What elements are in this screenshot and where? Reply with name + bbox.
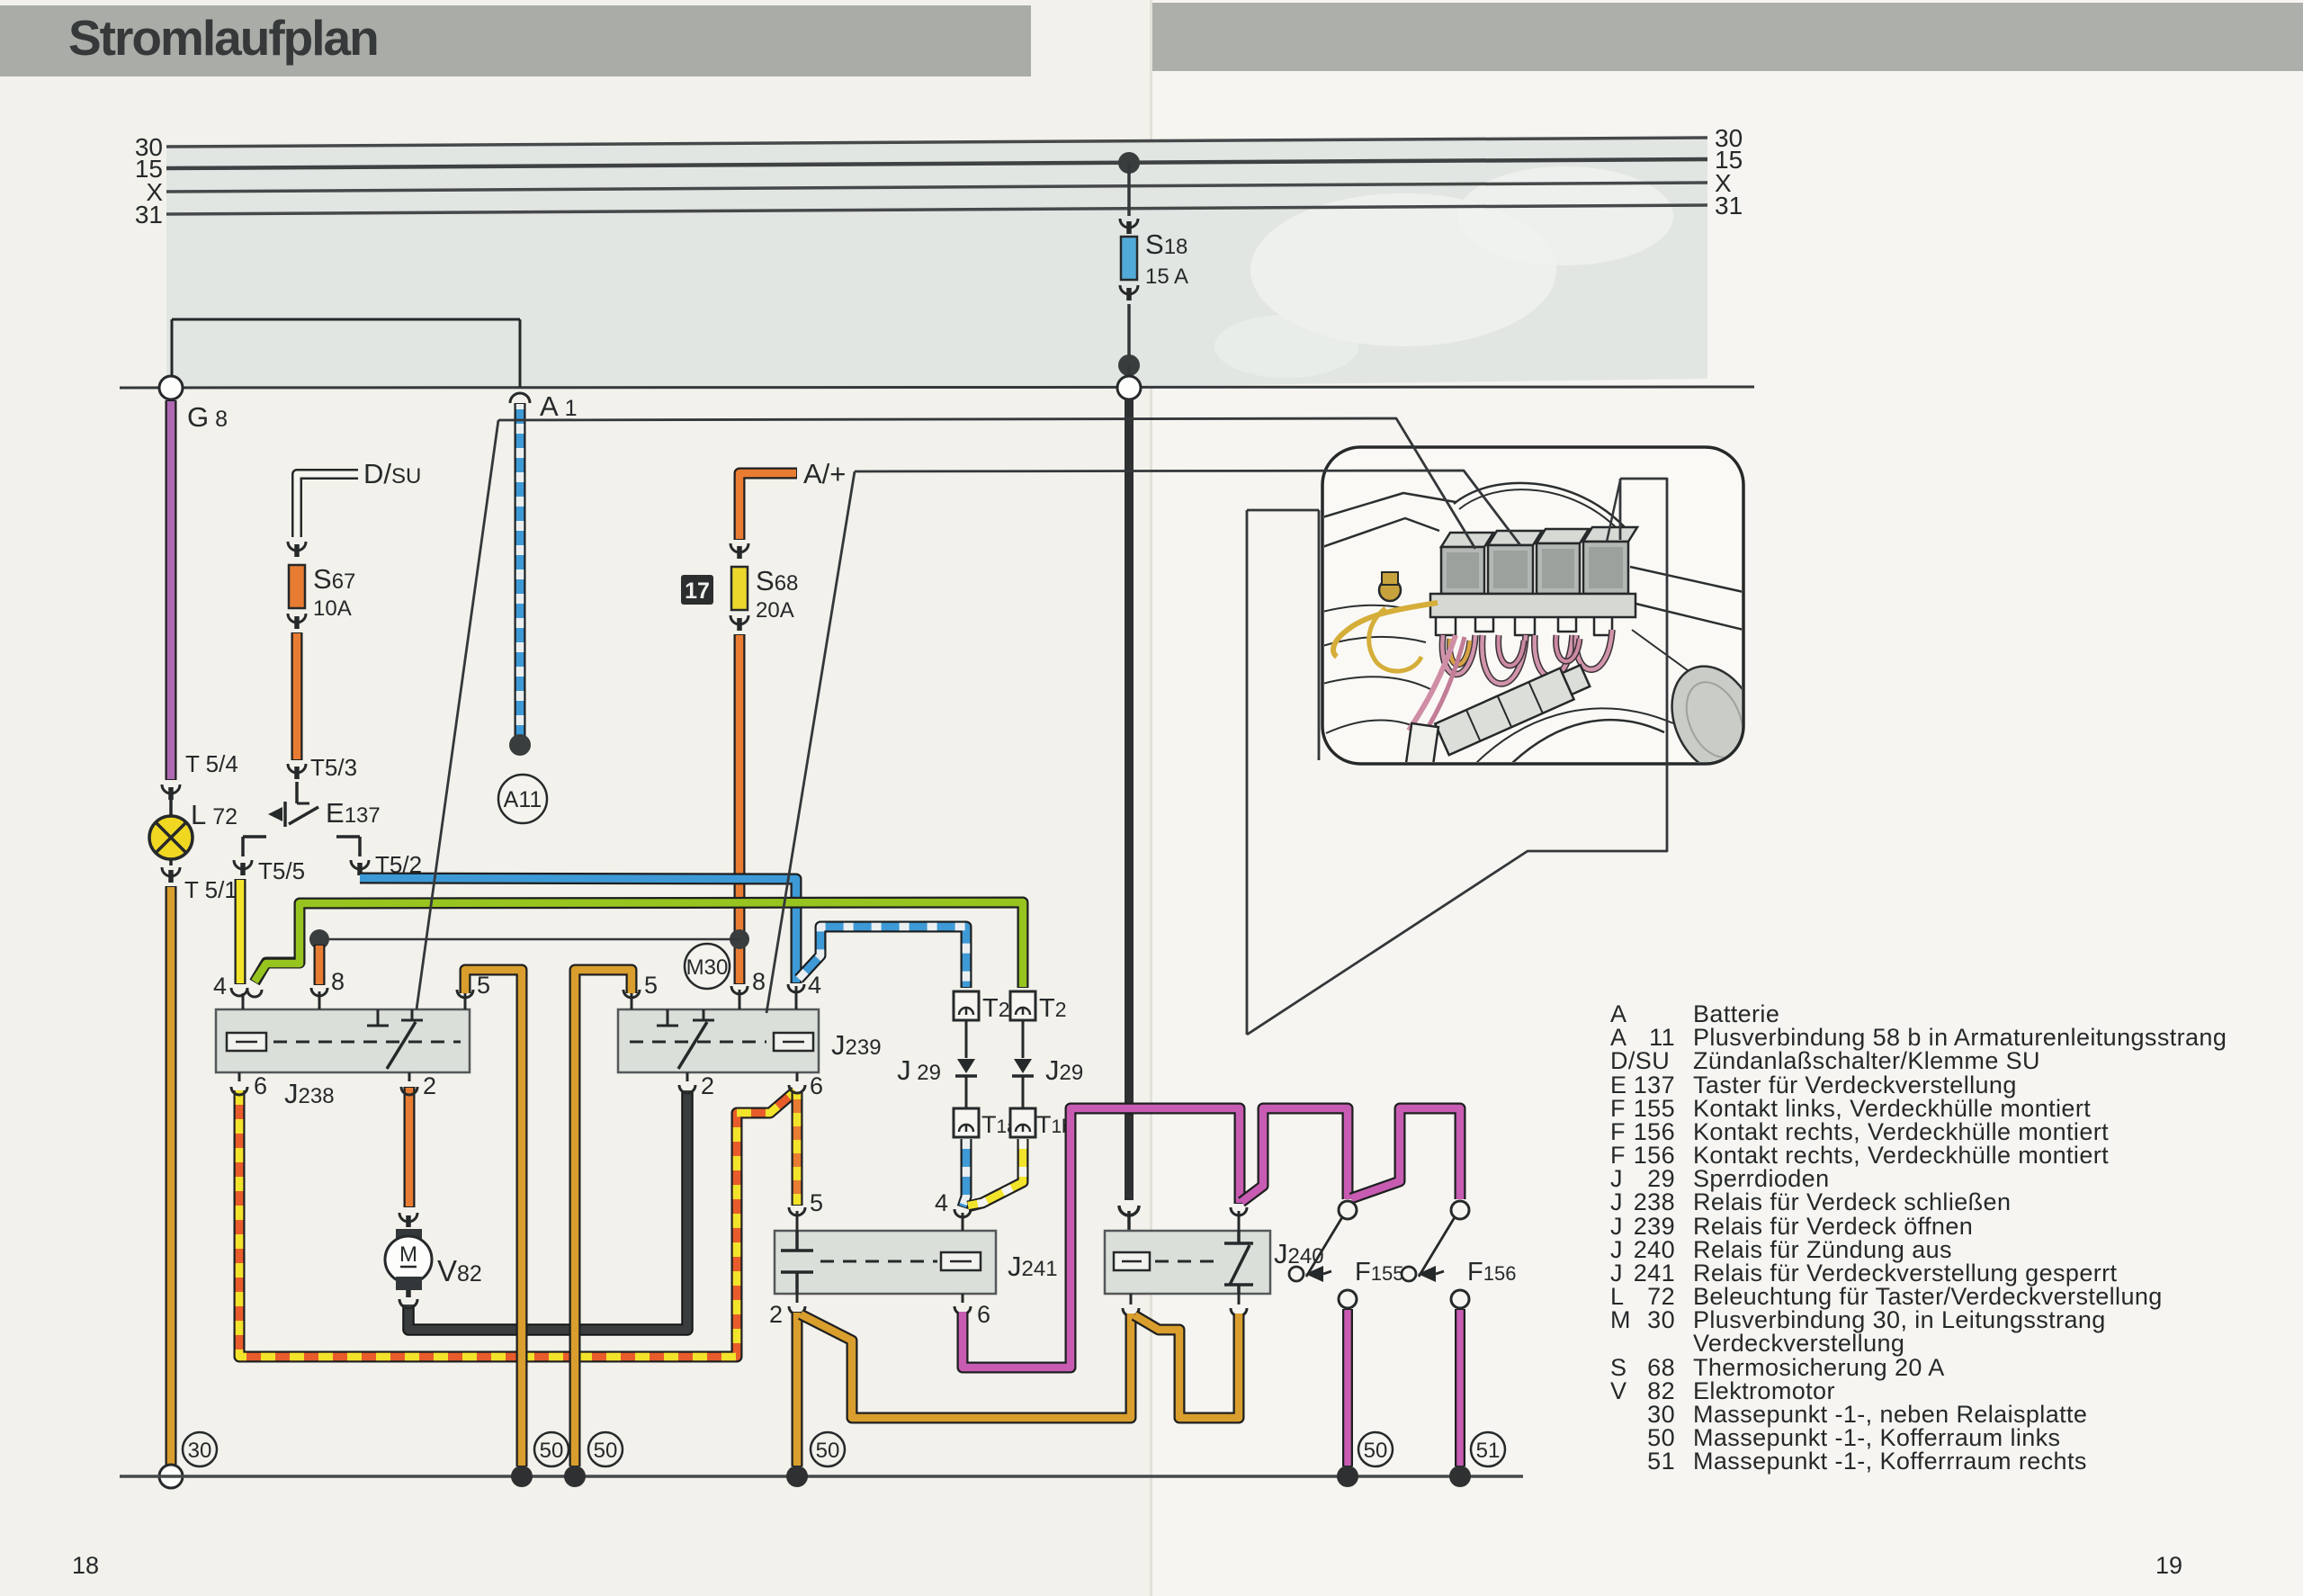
wire A/+ orange — [739, 473, 797, 540]
wire J239 pin5 to ground 50 amber — [575, 970, 632, 1466]
pink bundle to connector strip — [1409, 635, 1456, 731]
J239 pin 2 — [679, 1072, 695, 1093]
wire F155 to F156 magenta — [1351, 1108, 1460, 1199]
relay J241 — [775, 1231, 1058, 1294]
J241 pin 6 — [954, 1294, 971, 1314]
J238 pin 4 — [231, 988, 262, 1009]
svg-text:50: 50 — [816, 1439, 840, 1463]
svg-text:31: 31 — [1715, 192, 1743, 220]
J238 pin 2 — [401, 1072, 417, 1095]
wire J241 pin2 to ground 50 amber — [792, 1312, 803, 1466]
wire J240 to F155 magenta — [1241, 1108, 1348, 1202]
switch F155 — [1339, 1201, 1357, 1219]
svg-text:17: 17 — [685, 578, 710, 604]
svg-text:50: 50 — [1364, 1439, 1388, 1463]
svg-text:4: 4 — [935, 1189, 948, 1216]
ground dot 50 fourth — [1337, 1466, 1358, 1487]
connector above S18 — [1120, 219, 1138, 228]
switch E137 — [295, 782, 299, 803]
svg-text:2: 2 — [423, 1072, 436, 1099]
relay J240 — [1105, 1231, 1324, 1294]
svg-text:30: 30 — [1647, 1306, 1675, 1333]
junction dot above baseline — [1118, 354, 1140, 376]
J241 pin 5 — [789, 1207, 805, 1231]
svg-text:Stromlaufplan: Stromlaufplan — [68, 10, 378, 66]
wire F155 to ground 50 magenta — [1342, 1309, 1353, 1466]
leader line to relay J238 — [417, 420, 498, 1009]
J239 pin 5 — [623, 990, 640, 1009]
connector T1a — [954, 1108, 979, 1137]
connector T5/4 — [162, 785, 180, 794]
leader line to relay J239 — [766, 471, 855, 1013]
wire G8 violet — [166, 400, 177, 780]
fuse S67 10A — [289, 565, 305, 608]
connector T5/1 — [162, 867, 180, 876]
link wire M30 — [319, 938, 739, 941]
J238 pin 8 — [311, 988, 327, 1009]
switch F156 — [1451, 1201, 1469, 1219]
connector below S67 — [288, 614, 306, 623]
connector below S68 — [730, 615, 748, 624]
svg-text:50: 50 — [540, 1439, 564, 1463]
svg-text:5: 5 — [644, 972, 658, 999]
svg-text:30: 30 — [188, 1439, 212, 1463]
svg-text:50: 50 — [594, 1439, 618, 1463]
svg-text:Verdeckverstellung: Verdeckverstellung — [1693, 1330, 1904, 1357]
relay J239 — [618, 1009, 882, 1072]
svg-text:F156: F156 — [1467, 1258, 1516, 1287]
J240 pin bottom-left — [1123, 1294, 1139, 1316]
svg-text:5: 5 — [477, 972, 490, 999]
svg-text:T5/3: T5/3 — [310, 754, 357, 781]
svg-text:51: 51 — [1647, 1448, 1675, 1475]
connector T2 left — [954, 991, 979, 1020]
label M30 — [685, 944, 730, 989]
J239 pin 8 — [731, 986, 748, 1009]
fuse S18 15A — [1121, 237, 1137, 280]
header band left — [0, 5, 1031, 76]
diode J29 left — [965, 1020, 968, 1058]
svg-text:10A: 10A — [313, 596, 352, 621]
svg-text:L 72: L 72 — [191, 799, 237, 830]
wire S68 to J239 pin 8 orange — [734, 634, 746, 984]
relay 4 — [1583, 527, 1637, 594]
wire J238 pin4 to T2 green — [255, 902, 1023, 988]
car body lines — [1322, 493, 1456, 517]
svg-text:G 8: G 8 — [187, 401, 228, 433]
relay 1 — [1441, 533, 1493, 594]
J238 pin 5 — [457, 990, 473, 1009]
feeder box outline right edge — [519, 319, 522, 387]
svg-text:2: 2 — [769, 1301, 783, 1328]
svg-text:T2: T2 — [1039, 994, 1067, 1023]
connector above S67 — [288, 542, 306, 551]
J240 pin bottom-right — [1231, 1294, 1247, 1316]
svg-text:5: 5 — [810, 1189, 823, 1216]
svg-text:T 5/4: T 5/4 — [185, 750, 238, 777]
J240 pin top-right — [1231, 1207, 1247, 1231]
yellow wire and bolt — [1333, 603, 1438, 657]
connector strip — [1435, 660, 1591, 755]
connector above S68 — [730, 543, 748, 552]
bus X — [166, 183, 1707, 192]
node A11 end dot — [509, 734, 531, 756]
ground point 30 — [159, 1465, 183, 1488]
svg-text:A 1: A 1 — [540, 390, 578, 422]
label A11 circle — [498, 775, 547, 823]
ground bus line — [120, 1475, 1523, 1478]
svg-text:51: 51 — [1476, 1439, 1501, 1463]
wire J240 bottom loop amber — [1134, 1314, 1239, 1418]
wire T5/2 to J239 pin4 blue — [360, 878, 796, 983]
wire F156 to ground 51 magenta — [1455, 1309, 1465, 1466]
white sleeve — [1404, 723, 1438, 777]
svg-text:6: 6 — [254, 1072, 267, 1099]
J241 pin 2 — [789, 1294, 805, 1314]
shift boot — [1656, 652, 1774, 786]
J239 pin 4 — [788, 984, 804, 1009]
connector below S18 — [1120, 285, 1138, 294]
svg-text:20A: 20A — [756, 598, 794, 623]
node on baseline — [1117, 376, 1141, 399]
header band right — [1152, 3, 2303, 71]
svg-text:4: 4 — [213, 973, 227, 1000]
wire T1b to J241 pin4 yellow/white — [968, 1139, 1023, 1206]
svg-text:M: M — [399, 1242, 417, 1267]
junction dot J238 pin8 — [309, 929, 329, 949]
diode J29 right — [1022, 1020, 1025, 1058]
wire S18 lower stub — [1127, 304, 1131, 360]
svg-text:Relais für Verdeck schließen: Relais für Verdeck schließen — [1693, 1188, 2011, 1215]
svg-text:M: M — [1610, 1306, 1631, 1333]
wire bus15 to fuse S18 — [1127, 163, 1131, 216]
connector T5/2 — [351, 860, 369, 869]
connector T1b — [1010, 1108, 1035, 1137]
wire J239 pin6 to J241 pin5 orange/yellow — [792, 1092, 803, 1206]
svg-text:4: 4 — [808, 972, 821, 999]
wire J238 pin5 to ground 50 amber — [465, 970, 522, 1466]
svg-text:2: 2 — [701, 1072, 714, 1099]
svg-text:T 5/1: T 5/1 — [184, 876, 237, 903]
relay 2 — [1488, 531, 1542, 594]
fuse S68 20A — [731, 567, 748, 610]
svg-text:31: 31 — [135, 201, 163, 229]
wire V82 orange from J238 pin2 — [404, 1087, 416, 1207]
svg-text:6: 6 — [977, 1301, 990, 1328]
wire D/SU (white) — [297, 474, 358, 537]
svg-text:18: 18 — [72, 1552, 99, 1579]
wire A/+ link to inset relay 2 — [855, 471, 1520, 545]
J238 pin 6 — [231, 1072, 247, 1095]
svg-text:238: 238 — [1634, 1188, 1675, 1215]
svg-text:F155: F155 — [1355, 1258, 1403, 1287]
relay J238 — [216, 1009, 470, 1109]
inset picture frame — [1322, 447, 1743, 764]
current track tag 17 — [681, 575, 713, 605]
ground dot 50 second — [564, 1466, 586, 1487]
baseline under bus area — [120, 387, 1754, 388]
wire T5/5 to J238 pin4 yellow — [235, 879, 246, 984]
relay 3 — [1537, 529, 1589, 594]
svg-text:15 A: 15 A — [1145, 265, 1188, 289]
bus tint area — [166, 139, 1707, 388]
feeder box outline top edge — [172, 318, 520, 321]
svg-text:Zündanlaßschalter/Klemme SU: Zündanlaßschalter/Klemme SU — [1693, 1047, 2040, 1074]
svg-text:J: J — [1610, 1188, 1623, 1215]
callout frame tall left edge — [1247, 510, 1319, 1035]
connector T5/5 — [234, 860, 252, 869]
svg-text:8: 8 — [752, 968, 766, 995]
bus 30 — [166, 138, 1707, 147]
svg-text:6: 6 — [810, 1072, 823, 1099]
svg-text:A/+: A/+ — [803, 458, 846, 489]
svg-text:A11: A11 — [504, 787, 542, 812]
leader line to inset relay 4 — [1607, 480, 1620, 542]
connector T5/3 — [288, 764, 306, 773]
wire A1 blue/white dashed — [515, 403, 526, 736]
connector T2 right — [1010, 991, 1035, 1020]
wire 58b from A1 to inset relay 1 — [498, 418, 1475, 549]
switch E137 terminals — [243, 837, 266, 856]
connector J240 pin top-left — [1119, 1206, 1139, 1215]
wire J238 pin8 orange stub — [314, 945, 326, 985]
wire T1a to J241 pin4 blue/white — [963, 1139, 966, 1207]
svg-text:19: 19 — [2155, 1552, 2182, 1579]
node G8 on baseline — [159, 376, 183, 399]
feeder box outline left edge — [171, 319, 174, 387]
pink harness loops — [1442, 635, 1475, 675]
wire T5/1 ochre to ground 30 — [166, 886, 177, 1466]
svg-text:V: V — [1610, 1377, 1626, 1404]
wire J238 pin6 to J239 pin6 red/yellow — [239, 1090, 795, 1357]
wire J239 pin4 to T2 blue/white — [799, 927, 966, 988]
PAGE BACKGROUNDS — [0, 0, 1152, 1596]
junction M30 dot — [730, 929, 749, 949]
wire J241 pin2 to J240 amber branch — [801, 1314, 1131, 1418]
relay carrier bracket — [1430, 594, 1635, 617]
svg-text:T2: T2 — [982, 994, 1010, 1023]
J239 pin 6 — [789, 1072, 805, 1093]
svg-text:M30: M30 — [686, 955, 729, 980]
callout frame small — [1247, 479, 1667, 1035]
wire J241 pin6 to J240 magenta — [963, 1108, 1240, 1367]
lamp L72 — [169, 800, 173, 816]
bus 31 — [166, 205, 1707, 214]
ground dot 50 third — [786, 1466, 808, 1487]
ground dot 51 — [1449, 1466, 1471, 1487]
junction dot on bus 15 — [1118, 152, 1140, 174]
J241 pin 4 — [954, 1209, 971, 1231]
ground dot 50 left — [511, 1466, 533, 1487]
svg-text:T5/5: T5/5 — [258, 857, 305, 884]
svg-text:8: 8 — [331, 968, 345, 995]
svg-text:Massepunkt -1-, Kofferrraum re: Massepunkt -1-, Kofferrraum rechts — [1693, 1448, 2087, 1475]
svg-text:D/SU: D/SU — [1610, 1047, 1670, 1074]
motor V82 — [385, 1213, 482, 1308]
connector A1 below baseline — [510, 393, 530, 403]
wire S18 feed thick black to J240 — [1125, 399, 1134, 1200]
wire S67 to T5/3 orange — [291, 632, 303, 760]
bus 15 — [166, 159, 1707, 168]
wire V82 to J239 pin2 black — [408, 1090, 687, 1330]
